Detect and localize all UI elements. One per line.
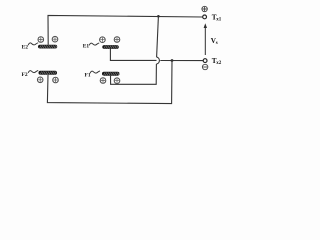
leader squiggle for F1 [90,71,100,73]
wire Tx2 segment right of hop [160,60,203,62]
voltage arrow Vs [204,23,207,55]
thermocouple element F2 [37,71,58,83]
wire continues down and left to F1 [111,64,157,84]
leader squiggle for E2 [28,43,38,45]
thermocouple element F1 [100,72,120,84]
wire hop over Tx2 wire [156,57,159,64]
terminal Tx1 [203,15,207,19]
thermocouple element E1 [100,37,120,49]
wire from E1 down and across toward Tx2 [110,49,156,61]
leader squiggle for F2 [28,71,38,73]
wire from E2 up and across to terminal Tx1 [48,15,203,44]
leader squiggle for E1 [89,43,99,45]
junction dot at top wire tap [157,15,160,18]
thermocouple element E2 [38,36,58,48]
svg-text:E1: E1 [83,43,90,49]
junction dot on Tx2 wire [171,59,174,62]
polarity minus mark below Tx2 [202,64,207,69]
wire from top tap down to hop [157,16,159,57]
terminal Tx2 [203,59,207,63]
wire from junction down, across bottom, up to F2 [47,61,172,104]
polarity plus mark above Tx1 [202,6,207,11]
svg-text:E2: E2 [22,44,29,50]
svg-text:F2: F2 [22,72,28,78]
